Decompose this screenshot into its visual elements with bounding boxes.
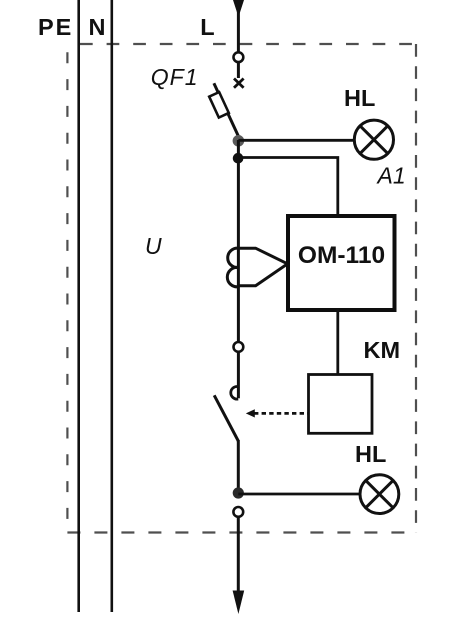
svg-text:HL: HL: [355, 441, 386, 467]
dashed enclosure border: [67, 44, 416, 533]
lamp HL2: [360, 475, 399, 514]
svg-text:L: L: [200, 14, 214, 40]
incoming arrow L: [233, 0, 244, 17]
contactor coil KM box: [309, 375, 373, 434]
svg-text:U: U: [145, 233, 162, 259]
junction node 1: [233, 135, 245, 147]
wire: [237, 62, 240, 78]
junction node 3: [233, 487, 244, 498]
wire: [237, 140, 240, 158]
svg-text:A1: A1: [376, 163, 406, 189]
wire to HL1: [238, 139, 354, 142]
breaker QF1 blade: [214, 83, 238, 136]
svg-text:QF1: QF1: [151, 64, 199, 90]
svg-text:KM: KM: [364, 337, 401, 363]
breaker QF1 body rectangle: [209, 92, 229, 117]
bus PE: [77, 0, 80, 612]
svg-text:N: N: [89, 14, 106, 40]
svg-text:PE: PE: [38, 14, 73, 40]
outgoing arrow: [233, 591, 245, 615]
lamp HL1: [354, 120, 393, 159]
wire to OM-110 input: [238, 158, 337, 218]
dashed actuation link KM to contact: [254, 412, 308, 415]
main wire down: [237, 158, 240, 343]
terminal circle top: [234, 52, 244, 62]
pickup triangle to OM-110: [239, 248, 288, 286]
breaker fixed contact X: [234, 79, 244, 88]
terminal circle bottom: [233, 507, 243, 517]
svg-text:OM-110: OM-110: [298, 242, 385, 269]
wire OM-110 to KM coil: [336, 309, 339, 375]
voltage pickup coil arcs: [227, 248, 238, 287]
device box OM-110: [288, 216, 395, 310]
contactor fixed contact arc: [231, 387, 238, 400]
wire to HL2: [238, 493, 360, 496]
junction node 2: [233, 153, 244, 164]
contactor KM blade: [214, 395, 238, 441]
wire: [237, 440, 240, 494]
wire: [237, 352, 240, 398]
actuation arrowhead: [246, 409, 255, 417]
wire: [237, 517, 240, 598]
bus N: [111, 0, 114, 612]
svg-text:HL: HL: [344, 85, 375, 111]
terminal circle mid: [234, 342, 244, 352]
wire: [237, 10, 240, 53]
